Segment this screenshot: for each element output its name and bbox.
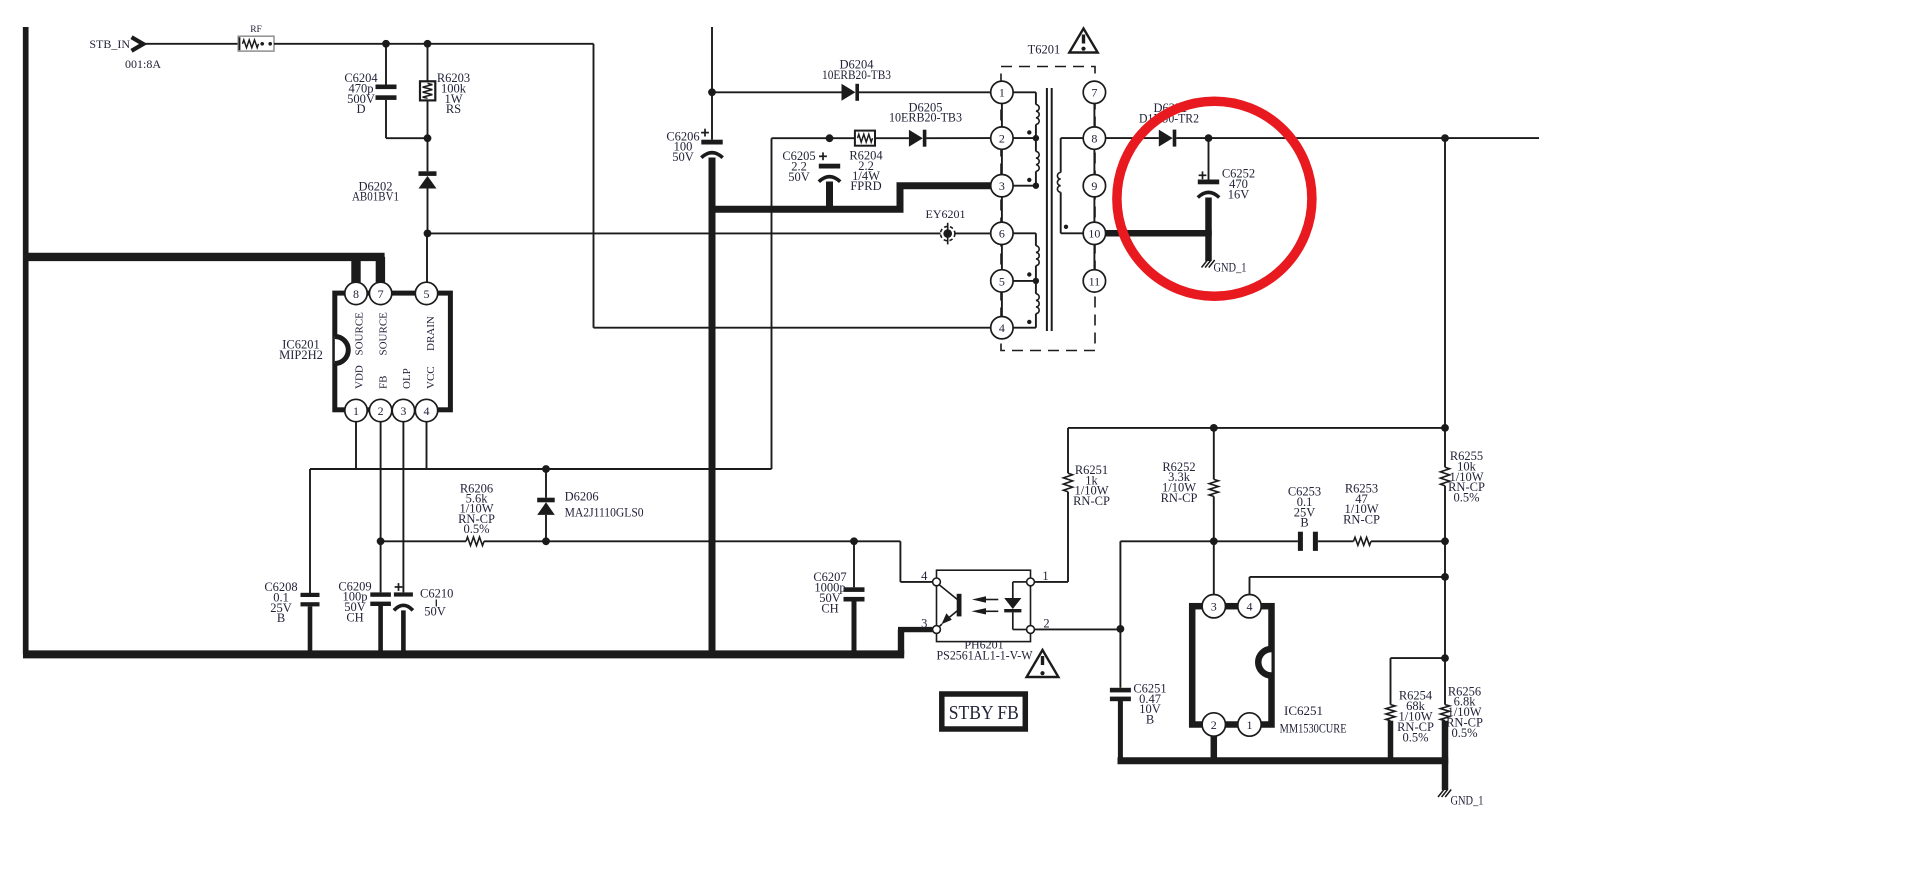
svg-text:VCC: VCC (425, 366, 437, 389)
wire thick pin3 run (709, 186, 991, 210)
svg-text:R6253471/10WRN-CP: R6253471/10WRN-CP (1343, 481, 1380, 526)
svg-text:PS2561AL1-1-V-W: PS2561AL1-1-V-W (937, 649, 1033, 663)
svg-text:RF: RF (250, 25, 262, 35)
svg-text:OLP: OLP (401, 368, 413, 389)
T6201 pin 3 (991, 175, 1013, 197)
T6201 winding phase dot (1064, 225, 1068, 229)
junction top right (1441, 134, 1449, 142)
junction opto pin2 node (1117, 625, 1125, 633)
svg-text:4: 4 (424, 404, 430, 418)
svg-text:3: 3 (400, 404, 406, 418)
PH6201 pin 1 terminal (1027, 578, 1035, 586)
junction rail/541 row (1441, 537, 1449, 545)
svg-text:2: 2 (1211, 718, 1217, 732)
svg-text:R625510k1/10WRN-CP0.5%: R625510k1/10WRN-CP0.5% (1448, 449, 1485, 505)
junction D6204 takeoff (708, 88, 716, 96)
T6201 pin 8 (1083, 127, 1105, 149)
T6201 pin 2 (991, 127, 1013, 149)
svg-text:R62523.3k1/10WRN-CP: R62523.3k1/10WRN-CP (1161, 460, 1198, 505)
wire 541 row (1120, 540, 1298, 542)
wire FB row (381, 540, 466, 542)
svg-text:R625468k1/10WRN-CP0.5%: R625468k1/10WRN-CP0.5% (1397, 689, 1434, 745)
wire thick bottom bus (primary ground) (23, 650, 904, 658)
PH6201 pin 3 terminal (933, 626, 941, 634)
svg-text:IC6251: IC6251 (1284, 704, 1323, 718)
T6201 primary winding 2-3 (1035, 138, 1037, 151)
warning triangle at PH6201 (1027, 650, 1059, 677)
capacitor C6204 (385, 44, 387, 85)
wire R6204 node (772, 137, 855, 139)
wire thick pin10 to C6252 (1106, 230, 1212, 237)
svg-text:2: 2 (999, 132, 1005, 146)
wire top stub (711, 27, 713, 140)
junction rail/427 row (1441, 424, 1449, 432)
svg-text:MM1530CURE: MM1530CURE (1280, 721, 1347, 735)
transformer pin column lines (1001, 92, 1003, 327)
svg-text:7: 7 (378, 287, 384, 301)
junction D6206 bottom (542, 537, 550, 545)
junction rail/pin4 row (1441, 573, 1449, 581)
resistor R6204 (855, 131, 875, 146)
T6201 pin 10 (1083, 222, 1105, 244)
resistor R6254 (1391, 657, 1446, 659)
svg-text:9: 9 (1091, 179, 1097, 193)
warning triangle at T6201 (1069, 29, 1097, 53)
PH6201 phototransistor (957, 594, 962, 617)
IC6201 pin 2 (369, 399, 391, 421)
IC6201 pin 4 (415, 399, 437, 421)
wire thick C6252 to gnd (1205, 198, 1212, 262)
svg-text:1: 1 (353, 404, 359, 418)
ground GND_1 (bottom right) (1438, 790, 1444, 798)
junction C6204/R6203 bottom (424, 134, 432, 142)
IC6201 pin 7 (369, 282, 391, 304)
wire VDD/VCC rail (310, 468, 772, 470)
resistor R6203 (427, 44, 429, 82)
wire thick IC6251 pin2 to bus (1211, 736, 1218, 761)
junction C6205/R6204 (826, 134, 834, 142)
svg-text:T6201: T6201 (1028, 43, 1061, 57)
PH6201 coupling arrows (984, 599, 998, 601)
wire STB_IN to RF (144, 43, 239, 45)
wire thick C6206 to ground bus (709, 158, 716, 655)
opto-coupler PH6201 body (937, 570, 1031, 641)
wire RF to corner (274, 43, 594, 45)
svg-text:3: 3 (999, 179, 1005, 193)
T6201 winding phase dot (1027, 320, 1031, 324)
resistor R6255 (1440, 467, 1449, 486)
op-amp U IC6251 MM1530CURE body (1192, 606, 1271, 724)
svg-text:5: 5 (424, 287, 430, 301)
svg-text:50V: 50V (424, 605, 446, 619)
wire thick secondary ground bus (1118, 757, 1449, 764)
IC6201 pin 1 (345, 399, 367, 421)
svg-text:STBY FB: STBY FB (949, 703, 1019, 724)
capacitor C6205 (819, 155, 827, 157)
svg-text:5: 5 (999, 274, 1005, 288)
op-amp U IC6201 MIP2H2 body (335, 293, 451, 410)
svg-text:3: 3 (921, 617, 927, 631)
T6201 pin 11 (1083, 270, 1105, 292)
diode D6202 (419, 171, 437, 176)
svg-text:4: 4 (999, 321, 1005, 335)
junction D6202 / drain node (424, 230, 432, 238)
resistor R6206 (466, 537, 484, 546)
wire thick left vertical bar (23, 27, 29, 654)
wire pin2 FB (380, 422, 382, 593)
wire FB row cont (484, 540, 900, 542)
wire thick R6256 to bus (1442, 721, 1449, 761)
svg-text:1: 1 (1042, 569, 1048, 583)
capacitor C6206 (701, 132, 709, 134)
junction R6252/541 row (1210, 537, 1218, 545)
transformer core (1046, 88, 1048, 331)
wire 427 row (1068, 427, 1445, 429)
diode D6206 (545, 469, 547, 498)
svg-text:STB_IN: STB_IN (89, 37, 130, 51)
T6201 pin 9 (1083, 175, 1105, 197)
svg-text:10: 10 (1088, 227, 1100, 241)
wire drain node to transformer pin 6 (428, 232, 991, 234)
wire pin8 to D6251 (1106, 137, 1159, 139)
svg-text:1: 1 (1247, 718, 1253, 732)
svg-text:4: 4 (921, 569, 928, 583)
wire to D6205 (875, 137, 909, 139)
wire thick C6205 to pin3 run (826, 182, 833, 210)
IC6251 pin 3 (1202, 595, 1225, 618)
PH6201 LED (1013, 581, 1026, 583)
wire pin3 OLP (402, 422, 404, 593)
svg-text:MA2J1110GLS0: MA2J1110GLS0 (565, 506, 644, 520)
T6201 pin 6 (991, 222, 1013, 244)
diode D6204 (842, 84, 856, 101)
capacitor C6210 (395, 586, 403, 588)
junction rail/D6206 (542, 465, 550, 473)
resistor R6252 (1213, 428, 1215, 480)
svg-text:7: 7 (1091, 86, 1097, 100)
T6201 winding phase dot (1027, 130, 1031, 134)
resistor R6256 (1440, 705, 1449, 721)
svg-text:FB: FB (378, 376, 390, 389)
T6201 primary winding 1-2 (1013, 91, 1036, 93)
IC6251 pin 4 (1238, 595, 1261, 618)
capacitor C6209 (370, 592, 391, 596)
spark gap EY6201 (941, 226, 955, 240)
capacitor C6251 (1110, 688, 1131, 693)
junction C6252 (1205, 134, 1213, 142)
annotation red circle (1117, 101, 1312, 296)
IC6201 pin 5 (415, 282, 437, 304)
junction FB node (377, 537, 385, 545)
junction 427/R6252 (1210, 424, 1218, 432)
svg-text:GND_1: GND_1 (1214, 260, 1247, 274)
svg-text:R62566.8k1/10WRN-CP0.5%: R62566.8k1/10WRN-CP0.5% (1446, 684, 1483, 740)
T6201 pin 4 (991, 317, 1013, 339)
T6201 winding phase dot (1027, 178, 1031, 182)
capacitor C6207 (853, 541, 855, 587)
IC6201 pin 8 (345, 282, 367, 304)
svg-text:D6202AB01BV1: D6202AB01BV1 (352, 179, 399, 203)
svg-text:D6206: D6206 (565, 490, 599, 504)
ground GND_1 (C6252) (1202, 260, 1208, 268)
IC6251 pin 1 (1238, 713, 1261, 736)
svg-text:8: 8 (1091, 132, 1097, 146)
svg-text:6: 6 (999, 227, 1005, 241)
svg-text:DRAIN: DRAIN (425, 316, 437, 351)
wire to IC6201 pin 5 (426, 233, 428, 282)
T6201 pin 5 (991, 270, 1013, 292)
capacitor C6208 (301, 593, 320, 597)
T6201 winding phase dot (1027, 272, 1031, 276)
wire VCC feed from R6204 node (771, 138, 773, 469)
T6201 pin 7 (1083, 81, 1105, 103)
svg-text:C6210: C6210 (420, 586, 453, 600)
wire right vertical rail (1444, 138, 1446, 467)
PH6201 pin 2 terminal (1027, 626, 1035, 634)
node STBY FB (942, 694, 1026, 729)
svg-text:001:8A: 001:8A (125, 57, 161, 71)
junction rail/R6254 branch (1441, 654, 1449, 662)
transformer T6201 dashed outline (1001, 67, 1095, 351)
diode D6205 (909, 130, 923, 147)
svg-text:R62511k1/10WRN-CP: R62511k1/10WRN-CP (1073, 463, 1110, 508)
junction C6207 tap (850, 537, 858, 545)
IC6201 pin 3 (392, 399, 414, 421)
wire thick to IC6201 source pins (23, 253, 385, 261)
resistor R6251 (1067, 428, 1069, 473)
wire pin1 VDD (355, 422, 357, 469)
svg-text:SOURCE: SOURCE (353, 312, 365, 356)
wire to D6204 (712, 91, 842, 93)
svg-text:R62065.6k1/10WRN-CP0.5%: R62065.6k1/10WRN-CP0.5% (458, 481, 495, 536)
svg-text:R62042.21/4WFPRD: R62042.21/4WFPRD (849, 149, 883, 194)
svg-text:1: 1 (999, 86, 1005, 100)
PH6201 pin 4 terminal (933, 578, 941, 586)
svg-text:EY6201: EY6201 (926, 207, 966, 221)
wire D6251 east (1176, 137, 1539, 139)
T6201 aux winding 5-4 (1035, 281, 1037, 294)
svg-text:GND_1: GND_1 (1451, 793, 1484, 807)
capacitor C6252 (1208, 138, 1210, 179)
wire opto pin2 to column (1035, 628, 1121, 630)
svg-text:VDD: VDD (353, 365, 365, 389)
svg-text:SOURCE: SOURCE (378, 312, 390, 356)
junction on STB line at R6203 (424, 40, 432, 48)
T6201 aux winding 6-5 (1013, 232, 1036, 234)
wire pin4 VCC (426, 422, 428, 469)
svg-text:11: 11 (1089, 274, 1101, 288)
IC6251 pin 2 (1202, 713, 1225, 736)
wire down to transformer pin 4 (593, 44, 595, 328)
svg-text:2: 2 (378, 404, 384, 418)
svg-text:IC6201MIP2H2: IC6201MIP2H2 (279, 338, 323, 362)
svg-text:3: 3 (1211, 600, 1217, 614)
capacitor C6253 (1298, 532, 1303, 551)
resistor R6253 (1354, 537, 1372, 545)
wire IC6251 pin4 (1249, 577, 1251, 595)
T6201 pin 1 (991, 81, 1013, 103)
wire C6251 column (1119, 541, 1121, 688)
diode D6251 (1159, 130, 1173, 147)
svg-text:8: 8 (353, 287, 359, 301)
svg-text:4: 4 (1247, 600, 1253, 614)
T6201 secondary winding 8-10 (1061, 137, 1084, 139)
junction on STB line at C6204 (382, 40, 390, 48)
